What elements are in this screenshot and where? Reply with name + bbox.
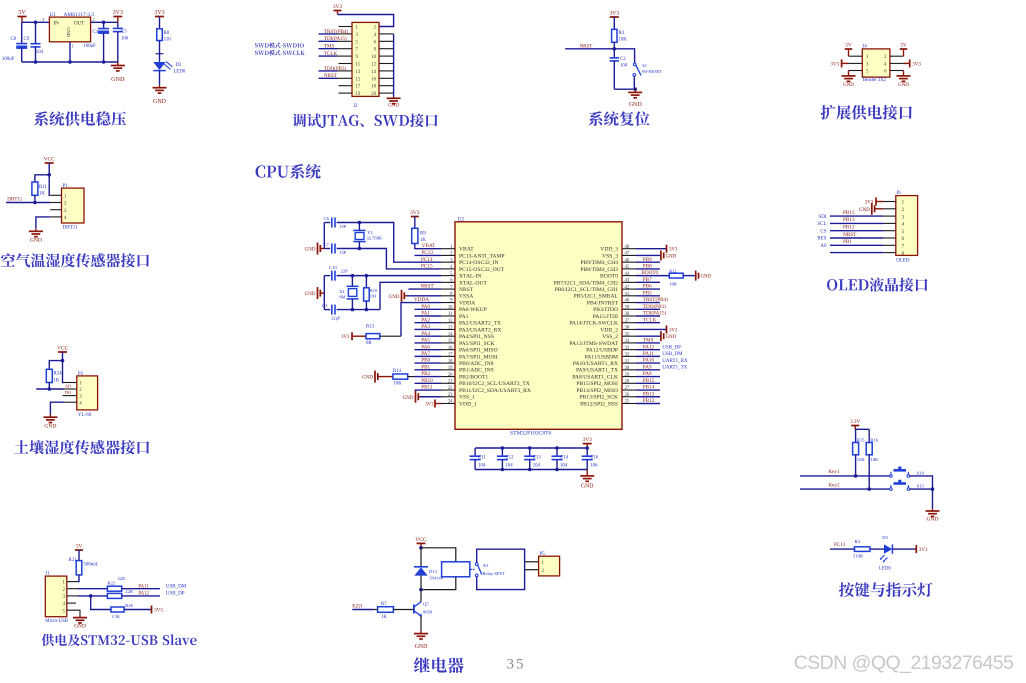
svg-text:GND: GND [581, 483, 594, 489]
svg-text:PB8/TIM4_CH3: PB8/TIM4_CH3 [580, 267, 618, 273]
svg-text:PB11/I2C2_SDA/USART3_RX: PB11/I2C2_SDA/USART3_RX [459, 388, 531, 394]
svg-text:14: 14 [371, 70, 376, 75]
svg-text:PB14/SPI2_MISO: PB14/SPI2_MISO [576, 388, 618, 394]
svg-text:R4: R4 [855, 539, 861, 544]
ground relay [420, 630, 422, 633]
regulator U1 AMS1117-3.3 [49, 17, 90, 42]
capacitor C13 104 [529, 448, 531, 456]
svg-text:23: 23 [448, 393, 453, 398]
svg-text:29: 29 [625, 373, 630, 378]
power rail VCC DHT11 [45, 162, 54, 164]
svg-text:17: 17 [356, 85, 361, 90]
node data pullup [33, 201, 37, 205]
svg-text:41: 41 [625, 292, 630, 297]
resistor R8 510 [157, 29, 163, 41]
note SWD模式-SWDIO [255, 43, 304, 48]
wire PB5 net [636, 295, 660, 297]
svg-text:26: 26 [625, 393, 630, 398]
svg-text:AO: AO [65, 383, 72, 388]
svg-text:SW-RESET: SW-RESET [642, 69, 663, 74]
svg-text:XTAL-IN: XTAL-IN [459, 274, 481, 280]
svg-text:PB13: PB13 [643, 391, 655, 397]
svg-text:PB0/ADC_IN8: PB0/ADC_IN8 [459, 361, 494, 367]
svg-text:32.768K: 32.768K [366, 236, 383, 241]
wire AO net [36, 388, 63, 390]
svg-text:VDDA: VDDA [414, 297, 429, 303]
ground J4 left [848, 74, 850, 76]
J2 left stubs [339, 26, 353, 28]
wire R26 to 3V3 [124, 609, 151, 611]
capacitor C6 15p [324, 222, 330, 224]
svg-text:104: 104 [560, 463, 568, 468]
power rail 3V3 reset [610, 16, 619, 18]
svg-text:U2: U2 [458, 216, 465, 222]
svg-text:PA11: PA11 [643, 351, 655, 357]
wire R24 to AO net [48, 383, 50, 390]
node decoupling rail [501, 446, 505, 450]
ground decoupling [586, 475, 588, 477]
svg-text:YL-69: YL-69 [78, 413, 92, 418]
svg-text:VDD_2: VDD_2 [600, 327, 618, 333]
wire 8M to XTAL-OUT [380, 282, 441, 309]
svg-text:GND: GND [859, 208, 870, 213]
wire KZJ1 base net [352, 609, 373, 611]
svg-text:PA12/USBDP: PA12/USBDP [586, 348, 618, 354]
svg-text:VCC: VCC [57, 346, 68, 352]
wire PA7 net [415, 355, 442, 357]
svg-text:1N4148: 1N4148 [429, 576, 443, 581]
svg-text:PA1: PA1 [459, 314, 469, 320]
connector J6 OLED [896, 196, 918, 256]
node X1 bottom [351, 308, 355, 312]
svg-text:3V3: 3V3 [669, 328, 678, 333]
switch S14 Key1 [890, 475, 893, 478]
wire R16 to Key2 [868, 455, 870, 489]
capacitor C10 22pF [324, 275, 330, 277]
ground reset [634, 89, 636, 92]
svg-text:PA11/USBDM: PA11/USBDM [585, 354, 618, 360]
svg-text:1: 1 [72, 44, 74, 49]
svg-text:R3: R3 [619, 31, 625, 36]
svg-text:3V3: 3V3 [609, 11, 619, 17]
svg-text:47: 47 [625, 252, 630, 257]
svg-text:PB5: PB5 [643, 290, 652, 296]
capacitor C2 104 [613, 49, 615, 57]
wire VCC to R11 [35, 175, 49, 182]
svg-text:8050: 8050 [423, 610, 433, 615]
node output rail [102, 21, 106, 25]
svg-text:PC14-OSC32_IN: PC14-OSC32_IN [459, 260, 498, 266]
svg-text:0R: 0R [366, 341, 372, 346]
svg-text:GND: GND [305, 248, 316, 253]
power rail 5V USB [75, 549, 83, 551]
resistor R10 1M [365, 276, 367, 288]
wire 32k to PC14 [359, 223, 441, 263]
wire key pullup rail [855, 428, 869, 430]
svg-text:GND: GND [30, 237, 42, 243]
node relay VCC [419, 546, 423, 550]
wire crystal left rail [323, 223, 325, 249]
svg-text:R24: R24 [54, 372, 63, 377]
node decoupling rail [528, 446, 532, 450]
svg-text:PB14: PB14 [643, 385, 655, 391]
svg-text:104: 104 [533, 463, 541, 468]
wire J4 pin5 to ground [849, 70, 863, 72]
wire TCLK net [636, 322, 660, 324]
svg-text:PB15/SPI2_MOSI: PB15/SPI2_MOSI [576, 381, 618, 387]
wire J1 pin2 to R22 [67, 588, 78, 590]
svg-text:R11: R11 [39, 185, 47, 190]
wire U1 OUT to 3V3 [91, 21, 118, 23]
wire Key1 net [800, 475, 890, 477]
svg-text:C14: C14 [560, 456, 569, 461]
resistor R15 10K [853, 443, 859, 455]
svg-text:PC13: PC13 [834, 543, 846, 548]
svg-text:PC13: PC13 [421, 250, 433, 256]
svg-text:PA12: PA12 [643, 344, 655, 350]
power rail 3V3 right [909, 62, 911, 64]
svg-text:GND: GND [388, 104, 399, 109]
capacitor C4 100uF [103, 22, 105, 28]
wire LED to 3V3 [892, 548, 916, 550]
node R10 top [365, 274, 369, 278]
svg-text:USB_DP: USB_DP [166, 591, 185, 596]
svg-text:C3: C3 [322, 303, 328, 308]
svg-text:J4: J4 [862, 44, 867, 49]
node bottom rail [34, 60, 38, 64]
resistor R21 500mA [76, 561, 82, 575]
wire coil to loop bottom [421, 577, 456, 590]
power rail 3V3 LED indicator [915, 548, 917, 550]
wire TDO(PB3) [319, 70, 338, 72]
wire PB6 net [636, 288, 660, 290]
svg-text:5V: 5V [18, 10, 26, 16]
wire OLED pin7 PB1 [830, 244, 883, 246]
svg-text:AMS1117-3.3: AMS1117-3.3 [64, 12, 95, 18]
svg-text:S14: S14 [917, 470, 925, 475]
ground BOOT0 [695, 275, 697, 277]
svg-text:PB1: PB1 [421, 364, 430, 370]
svg-text:VBAT: VBAT [422, 243, 436, 249]
ground VSS_2 [660, 335, 662, 337]
wire PA3 net [415, 328, 442, 330]
svg-text:3V3: 3V3 [333, 4, 343, 10]
wire 3V3 to R3 [613, 17, 615, 29]
node Key2 pullup [867, 487, 871, 491]
wire OLED pin6 NRST [830, 237, 883, 239]
svg-text:C6: C6 [324, 216, 330, 221]
svg-text:104: 104 [505, 463, 513, 468]
svg-text:VCC: VCC [44, 157, 55, 163]
wire 5V to R21 [78, 550, 80, 561]
resistor R14 10K [393, 374, 408, 379]
power rail 5V [18, 16, 27, 18]
svg-text:100uF: 100uF [2, 57, 15, 62]
svg-text:3V3: 3V3 [410, 210, 420, 216]
resistor R4 510R [855, 547, 870, 552]
svg-text:UART1_RX: UART1_RX [662, 359, 688, 364]
svg-text:3V3: 3V3 [425, 402, 434, 407]
svg-text:3V3: 3V3 [912, 62, 921, 67]
wire top rail 5V to U1 IN [22, 21, 49, 23]
wire OLED pin3 PB15 [830, 215, 883, 217]
svg-text:RES: RES [817, 237, 826, 242]
svg-text:C4: C4 [93, 30, 99, 35]
wire PA12 net [636, 349, 660, 351]
wire DO stub [63, 395, 77, 397]
svg-text:PA8: PA8 [643, 371, 652, 377]
resistor R9 1K [412, 228, 418, 243]
svg-text:PB9/TIM4_CH4: PB9/TIM4_CH4 [580, 260, 618, 266]
switch S15 Key2 [890, 488, 893, 491]
resistor R23 22R [107, 593, 121, 598]
svg-text:NRST: NRST [580, 44, 593, 49]
svg-text:19: 19 [448, 366, 453, 371]
svg-text:PB15: PB15 [643, 378, 655, 384]
wire DHT11 data net [6, 202, 50, 204]
svg-text:UART1_TX: UART1_TX [662, 366, 687, 371]
svg-text:Q5: Q5 [423, 602, 429, 607]
wire relay contact loop [477, 549, 525, 589]
ground JTAG [393, 97, 395, 99]
svg-text:VDDA: VDDA [459, 300, 475, 306]
svg-text:CS: CS [820, 229, 826, 234]
svg-text:D3: D3 [882, 535, 888, 540]
IC U2 STM32F103C8T6 [455, 222, 622, 429]
power rail VCC YL-69 [58, 351, 67, 353]
svg-text:DHT11: DHT11 [63, 226, 79, 231]
node decoupling rail [555, 446, 559, 450]
wire J4 pin2 to 5V [890, 55, 904, 57]
wire TCLK [319, 55, 338, 57]
svg-text:BOOT0: BOOT0 [641, 270, 658, 276]
wire PB14 net [636, 389, 660, 391]
wire VDDA from R13 [401, 303, 441, 337]
svg-text:GND: GND [362, 376, 373, 381]
svg-text:R21: R21 [69, 558, 78, 563]
svg-text:STM32F103C8T6: STM32F103C8T6 [510, 431, 552, 437]
svg-text:35: 35 [625, 332, 630, 337]
svg-text:PA12: PA12 [138, 592, 149, 597]
wire VDD_2 to 3V3 [636, 328, 667, 330]
node decoupling 3V3 [585, 446, 589, 450]
svg-text:10: 10 [371, 55, 376, 60]
power rail 3V3 JTAG [334, 10, 342, 12]
wire VSS_3 to ground [636, 254, 661, 256]
svg-text:K1: K1 [483, 563, 489, 568]
svg-text:1.5K: 1.5K [111, 614, 121, 619]
wire bottom rail regulator [22, 61, 118, 63]
node relay coil bottom [419, 588, 423, 592]
svg-text:OUT: OUT [74, 22, 84, 27]
P1 pin3 stub [50, 209, 61, 211]
svg-text:PB10: PB10 [421, 378, 433, 384]
wire contact stubs to P5 [525, 561, 539, 563]
svg-text:13: 13 [448, 326, 453, 331]
svg-text:Relay-SPST: Relay-SPST [483, 571, 506, 576]
wire TMS net [636, 342, 660, 344]
power rail 5V right [900, 48, 908, 50]
title 调试JTAG、SWD接口 [293, 113, 438, 128]
title 按键与指示灯 [839, 582, 932, 597]
svg-text:39: 39 [625, 305, 630, 310]
svg-text:10K: 10K [393, 382, 402, 387]
svg-text:TCLK: TCLK [324, 52, 337, 57]
svg-text:5V: 5V [76, 545, 83, 550]
wire PA11 net [636, 355, 660, 357]
svg-text:PB1: PB1 [843, 239, 852, 245]
wire TRST(PB4) net [636, 302, 660, 304]
svg-text:VSS_1: VSS_1 [459, 395, 475, 401]
wire TDO(PB3) net [636, 308, 660, 310]
svg-text:19: 19 [356, 92, 361, 97]
capacitor C9 104 [35, 22, 37, 43]
wire 3V3 to J2 pin2 [338, 15, 394, 27]
svg-text:R12: R12 [669, 268, 676, 273]
node R10 bottom [365, 308, 369, 312]
svg-text:PB7/I2C1_SDA/TIM4_CH2: PB7/I2C1_SDA/TIM4_CH2 [554, 280, 619, 286]
wire BOOT0 net [636, 275, 669, 277]
power rail 3V3 VDD_2 [666, 328, 668, 330]
capacitor C14 104 [556, 448, 558, 456]
svg-text:PB3/JTDO: PB3/JTDO [593, 307, 618, 313]
power rail 3V3 output [113, 16, 122, 18]
svg-text:PB11: PB11 [421, 385, 433, 391]
svg-text:106: 106 [590, 463, 598, 468]
svg-text:C12: C12 [505, 456, 514, 461]
node Key1 pullup [854, 474, 858, 478]
wire decoupling top rail [475, 447, 587, 449]
svg-text:PA15/JTDI: PA15/JTDI [593, 314, 618, 320]
wire J1 pin5 to ground [67, 610, 80, 616]
svg-text:34: 34 [625, 339, 630, 344]
svg-text:11: 11 [448, 312, 453, 317]
svg-text:PC13-ANTI_TAMP: PC13-ANTI_TAMP [459, 253, 505, 259]
svg-text:P1: P1 [63, 184, 69, 189]
connector P1 DHT11 [62, 188, 85, 223]
title 系统复位 [589, 111, 650, 126]
resistor R24 1K [46, 369, 52, 382]
svg-text:10K: 10K [619, 38, 628, 43]
ground LED [159, 85, 161, 88]
wire relay coil loop top [421, 548, 456, 562]
svg-text:1K: 1K [54, 379, 60, 384]
svg-text:VDD_3: VDD_3 [600, 247, 618, 253]
resistor R12 10K [669, 273, 683, 278]
resistor R16 10K [866, 443, 872, 455]
svg-text:6: 6 [902, 236, 905, 242]
svg-text:GND: GND [666, 335, 677, 340]
svg-text:USB_DM: USB_DM [166, 584, 187, 589]
svg-text:PA14/JTCK-SWCLK: PA14/JTCK-SWCLK [569, 321, 618, 327]
ground VSS_3 [660, 254, 662, 256]
svg-text:PA5/SPI1_SCK: PA5/SPI1_SCK [459, 341, 495, 347]
wire PA5 net [415, 342, 442, 344]
svg-text:12: 12 [371, 63, 376, 68]
svg-text:11: 11 [356, 63, 361, 68]
resistor R26 1.5K [111, 607, 124, 612]
wire crystal8M left rail [323, 276, 325, 310]
svg-text:22R: 22R [125, 589, 134, 594]
svg-text:GND: GND [305, 292, 316, 297]
svg-text:20: 20 [371, 92, 376, 97]
ground keys [932, 508, 934, 511]
node Y1 bottom [358, 247, 362, 251]
svg-text:Micro-USB: Micro-USB [45, 619, 68, 624]
svg-text:2: 2 [902, 207, 905, 213]
svg-text:PA10: PA10 [643, 358, 655, 364]
wire decoupling to ground [586, 470, 588, 476]
svg-text:GND: GND [843, 83, 854, 88]
svg-text:LED0: LED0 [879, 567, 891, 572]
svg-text:R16: R16 [870, 438, 878, 443]
svg-text:27: 27 [625, 386, 630, 391]
svg-text:P2: P2 [78, 372, 84, 377]
note SWD模式-SWCLK [255, 50, 305, 55]
svg-text:2: 2 [93, 17, 95, 22]
wire 3V3 to R9 [414, 217, 416, 229]
svg-text:3V3: 3V3 [830, 62, 839, 67]
svg-text:PA7: PA7 [421, 351, 430, 357]
wire S1 to ground rail [633, 76, 635, 89]
node key ground join [931, 487, 935, 491]
wire J4 pin3 to 3V3 [849, 62, 863, 64]
svg-text:16: 16 [371, 77, 376, 82]
svg-text:48: 48 [625, 245, 630, 250]
wire R7 to base [393, 609, 414, 611]
svg-text:R13: R13 [366, 325, 375, 330]
svg-text:GND: GND [415, 644, 428, 650]
svg-text:104: 104 [478, 463, 486, 468]
svg-text:8M: 8M [339, 294, 345, 299]
svg-text:GND: GND [926, 517, 938, 523]
svg-text:PA5: PA5 [421, 338, 430, 344]
diode LED D2 [153, 62, 165, 70]
svg-text:C13: C13 [533, 456, 542, 461]
svg-text:PA3/USART2_RX: PA3/USART2_RX [459, 327, 501, 333]
svg-text:22P: 22P [341, 269, 349, 274]
capacitor C8 100uF [21, 22, 23, 43]
svg-text:3V3: 3V3 [669, 248, 678, 253]
svg-text:12: 12 [448, 319, 453, 324]
svg-text:R7: R7 [381, 602, 387, 607]
svg-text:10K: 10K [669, 282, 678, 287]
node X1 top [351, 274, 355, 278]
svg-text:S1: S1 [642, 63, 648, 68]
wire NRST to switch S1 [614, 49, 634, 63]
svg-text:4: 4 [902, 222, 905, 228]
ground regulator [117, 62, 119, 66]
svg-text:TDI(PA15): TDI(PA15) [643, 310, 667, 317]
svg-text:VBAT: VBAT [459, 247, 474, 253]
svg-text:PB9: PB9 [643, 257, 652, 263]
wire P1 pin4 to ground [50, 216, 61, 218]
svg-text:TDO(PB3): TDO(PB3) [643, 303, 666, 310]
svg-text:VSS_3: VSS_3 [602, 253, 618, 259]
crystal X1 8M [347, 285, 359, 287]
power rail 3V3 decoupling [583, 443, 592, 445]
svg-text:15P: 15P [339, 250, 347, 255]
svg-text:3V3: 3V3 [919, 548, 928, 553]
wire VSS_2 to ground [636, 335, 661, 337]
svg-text:44: 44 [625, 272, 630, 277]
capacitor C3 22pF [324, 309, 330, 311]
svg-text:BOOT0: BOOT0 [600, 274, 618, 280]
power rail 3V3 via R13 [351, 335, 353, 337]
svg-text:1K: 1K [39, 192, 45, 197]
wire PB12 net [636, 402, 660, 404]
svg-text:C9: C9 [24, 37, 30, 42]
